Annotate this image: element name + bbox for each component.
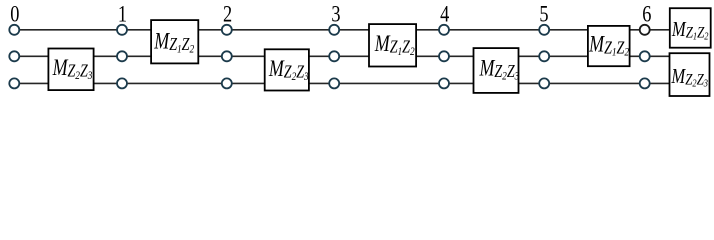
node q2 t=1 bbox=[117, 51, 127, 61]
wire qubit 3 (bottom rail) bbox=[14, 82, 669, 84]
node q3 t=6 bbox=[640, 78, 650, 88]
wire qubit 1 (top rail, t=0 to final measurement box) bbox=[14, 29, 670, 31]
time label 5 bbox=[539, 0, 548, 27]
node q2 t=3 bbox=[329, 51, 339, 61]
node q2 t=0 bbox=[9, 51, 19, 61]
time label 3 bbox=[331, 0, 340, 27]
svg-text:0: 0 bbox=[10, 0, 19, 27]
node q3 t=0 bbox=[9, 78, 19, 88]
svg-text:6: 6 bbox=[642, 0, 651, 27]
svg-text:4: 4 bbox=[440, 0, 450, 27]
node q3 t=3 bbox=[329, 78, 339, 88]
time label 6 bbox=[642, 0, 651, 27]
final measurement box M_Z1Z2 (top right) bbox=[670, 8, 711, 48]
node q2 t=4 bbox=[439, 51, 449, 61]
node q1 t=0 bbox=[9, 25, 19, 35]
node q3 t=5 bbox=[539, 78, 549, 88]
measurement box M_Z2Z3 (round t=4-5, qubits 2-3) bbox=[474, 48, 520, 93]
time label 0 bbox=[10, 0, 19, 27]
svg-text:3: 3 bbox=[331, 0, 340, 27]
node q2 t=2 bbox=[222, 51, 232, 61]
time label 2 bbox=[223, 0, 232, 27]
node q1 t=5 bbox=[539, 25, 549, 35]
node q1 t=6 (black) bbox=[640, 25, 650, 35]
measurement box M_Z2Z3 (round t=0-1, qubits 2-3) bbox=[48, 49, 93, 91]
svg-text:2: 2 bbox=[223, 0, 232, 27]
svg-text:5: 5 bbox=[539, 0, 548, 27]
svg-text:1: 1 bbox=[118, 0, 127, 27]
time label 4 bbox=[440, 0, 450, 27]
node q3 t=2 bbox=[222, 78, 232, 88]
node q2 t=6 bbox=[640, 51, 650, 61]
measurement box M_Z1Z2 (round t=1-2, qubits 1-2) bbox=[151, 20, 198, 63]
measurement box M_Z1Z2 (round t=3-4, qubits 1-2) bbox=[369, 24, 416, 66]
node q1 t=2 bbox=[222, 25, 232, 35]
wire qubit 2 (middle rail) bbox=[14, 55, 669, 57]
final measurement box M_Z2Z3 (bottom right) bbox=[670, 53, 710, 96]
node q1 t=1 bbox=[117, 25, 127, 35]
node q2 t=5 bbox=[539, 51, 549, 61]
measurement box M_Z1Z2 (round t=5-6, qubits 1-2) bbox=[588, 26, 630, 66]
measurement box M_Z2Z3 (round t=2-3, qubits 2-3) bbox=[265, 49, 309, 90]
time label 1 bbox=[118, 0, 127, 27]
node q1 t=4 bbox=[439, 25, 449, 35]
node q3 t=4 bbox=[439, 78, 449, 88]
node q3 t=1 bbox=[117, 78, 127, 88]
node q1 t=3 bbox=[329, 25, 339, 35]
